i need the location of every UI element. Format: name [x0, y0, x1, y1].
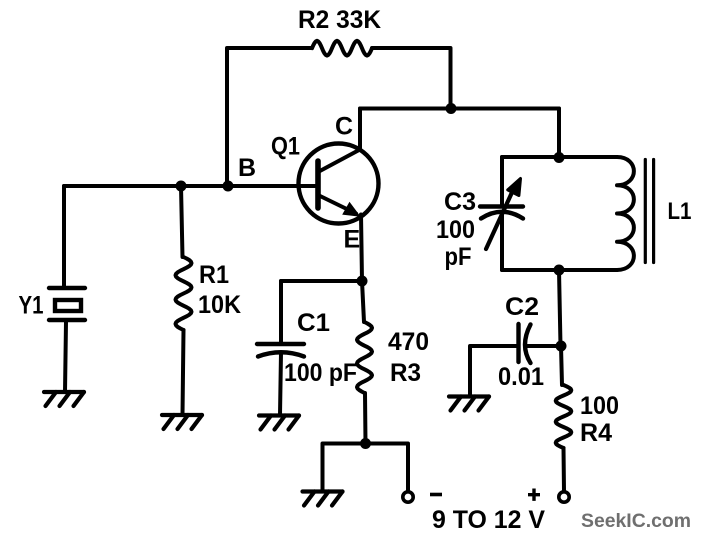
crystal Y1 bottom plate — [49, 318, 85, 322]
wire: R1 bottom lead — [183, 330, 184, 415]
variable capacitor C3 arrow shaft — [486, 188, 514, 249]
svg-text:L1: L1 — [668, 198, 692, 225]
crystal Y1 body — [55, 300, 81, 311]
ground bottom middle — [303, 492, 343, 506]
minus sign — [430, 493, 442, 497]
resistor R3 bottom lead — [363, 393, 368, 444]
wire: tank left lower — [500, 214, 504, 270]
resistor R3 top lead — [362, 281, 364, 322]
svg-text:R1: R1 — [199, 261, 229, 289]
node: rail junction — [446, 103, 457, 114]
wire: C1 bottom lead — [280, 353, 281, 415]
svg-text:C1: C1 — [297, 309, 330, 337]
wire: collector vertical — [358, 109, 362, 151]
svg-text:100 pF: 100 pF — [284, 359, 357, 387]
wire: tank top rail — [502, 155, 617, 159]
terminal: negative — [403, 492, 413, 502]
wire: top-left L from base node up to R2 — [227, 48, 312, 186]
transistor Q1 emitter arrowhead — [344, 204, 359, 216]
transistor Q1 base bar — [315, 161, 321, 208]
svg-text:470: 470 — [388, 328, 429, 356]
resistor R4 — [556, 385, 572, 448]
wire: tank feed drop — [557, 109, 561, 158]
wire: emitter node to C1 — [281, 279, 362, 283]
svg-text:R2 33K: R2 33K — [298, 6, 381, 34]
svg-text:Q1: Q1 — [271, 133, 300, 161]
wire: horizontal rail to tank — [360, 107, 559, 111]
svg-text:0.01: 0.01 — [498, 363, 544, 391]
wire: C2 right lead — [526, 344, 561, 348]
wire: emitter vertical — [361, 215, 362, 282]
svg-text:C2: C2 — [505, 293, 539, 321]
wire: R4 bottom lead — [562, 448, 567, 491]
transistor Q1 emitter stroke — [318, 195, 356, 214]
transistor Q1 collector stroke — [318, 150, 360, 173]
wire: crystal bottom lead — [65, 322, 66, 392]
ground under R1 — [162, 415, 202, 429]
inductor L1 core line 2 — [652, 160, 655, 263]
svg-text:C: C — [335, 113, 353, 141]
resistor R2 — [312, 41, 372, 56]
node: emitter junction — [357, 276, 368, 287]
node: tank bottom — [554, 265, 565, 276]
capacitor C2 plates — [516, 324, 520, 362]
svg-text:E: E — [344, 226, 361, 254]
svg-text:SeekIC.com: SeekIC.com — [581, 510, 691, 532]
resistor R3 — [357, 322, 372, 393]
svg-text:Y1: Y1 — [19, 292, 44, 320]
wire: R2 right lead down to rail — [372, 48, 451, 109]
capacitor C3 plates — [480, 204, 523, 208]
inductor L1 core line 1 — [644, 160, 647, 263]
node: tank top — [554, 152, 565, 163]
wire: base horizontal — [64, 184, 316, 188]
wire: tank bottom down to C2 node — [559, 270, 561, 346]
svg-text:R4: R4 — [580, 419, 612, 447]
terminal: positive — [559, 492, 569, 502]
resistor R1 — [176, 257, 192, 330]
wire: tank left upper + C3 lead — [500, 157, 504, 206]
svg-text:100: 100 — [580, 392, 619, 420]
svg-text:10K: 10K — [198, 291, 241, 319]
ground under C1 — [259, 416, 299, 430]
wire: tank bottom rail — [502, 268, 617, 272]
ground under Y1 — [44, 392, 84, 406]
capacitor C1 plates — [257, 342, 304, 346]
variable capacitor C3 arrowhead — [508, 179, 521, 196]
ground under C2 — [449, 397, 489, 411]
svg-text:100: 100 — [436, 216, 475, 244]
svg-text:C3: C3 — [444, 188, 476, 216]
node: base junction B — [223, 181, 234, 192]
svg-text:pF: pF — [445, 243, 472, 271]
wire: left column down to crystal — [62, 186, 66, 288]
wire: bottom horizontal with drops — [323, 444, 409, 492]
wire: C2 node to R4 — [561, 346, 562, 385]
node: C2 junction — [556, 341, 567, 352]
plus sign — [528, 489, 540, 501]
node: R1 tap — [176, 181, 187, 192]
node: bottom junction — [360, 438, 371, 449]
crystal Y1 top plate — [49, 286, 85, 290]
wire: C1 top lead — [279, 281, 283, 344]
svg-text:9 TO 12 V: 9 TO 12 V — [432, 506, 545, 534]
svg-text:B: B — [238, 154, 256, 182]
wire: R1 top lead — [181, 186, 183, 257]
transistor Q1 circle — [299, 144, 379, 224]
inductor L1 coil — [617, 157, 634, 270]
svg-text:R3: R3 — [390, 359, 421, 387]
wire: C2 left lead and drop to ground — [470, 346, 518, 396]
